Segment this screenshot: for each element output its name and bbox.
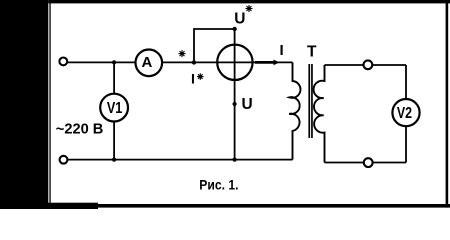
scan border: left strip [0,0,48,209]
terminal X3 (secondary top) [364,60,373,69]
wire: secondary bottom [325,162,407,164]
svg-text:I: I [280,42,284,59]
svg-text:Рис. 1.: Рис. 1. [199,176,238,192]
ammeter A [136,50,163,77]
voltmeter V1 [100,94,128,122]
wire top: input terminal to transformer primary [67,61,293,63]
wire bottom: input terminal to transformer primary [67,159,293,161]
current arrow I on top wire [255,61,275,64]
svg-text:~220 В: ~220 В [56,120,104,137]
transformer T primary winding [289,62,300,159]
wire: secondary top [325,64,407,66]
terminal X1 (top input) [59,58,67,66]
voltmeter V2 [392,99,419,126]
svg-text:V2: V2 [397,105,412,122]
svg-text:V1: V1 [107,100,123,117]
svg-text:A: A [141,54,152,71]
star of U* [246,5,253,12]
wire: wattmeter voltage-coil vertical [234,29,236,160]
svg-text:U: U [234,10,245,27]
junction: bottom wire / wattmeter vertical [233,158,237,162]
svg-text:T: T [307,43,317,60]
wire: wattmeter potential loop [194,29,235,62]
svg-text:U: U [242,96,253,113]
svg-text:I: I [191,70,195,86]
terminal X2 (bottom input) [60,156,68,164]
junction: bottom wire / V1 [112,158,116,162]
transformer T secondary winding [314,65,325,163]
junction: top wire / potential loop [192,60,196,64]
wattmeter W [217,45,252,80]
node dot on U line [233,102,237,106]
junction: loop / wattmeter vertical [232,27,236,31]
terminal X4 (secondary bottom) [364,158,373,167]
transformer core [308,64,310,138]
junction: top wire / V1 [112,60,116,64]
wire: secondary right vertical [405,65,407,163]
star: current coil mark [179,50,186,57]
star of I* [197,73,204,80]
wire: V1 branch vertical [113,62,115,159]
